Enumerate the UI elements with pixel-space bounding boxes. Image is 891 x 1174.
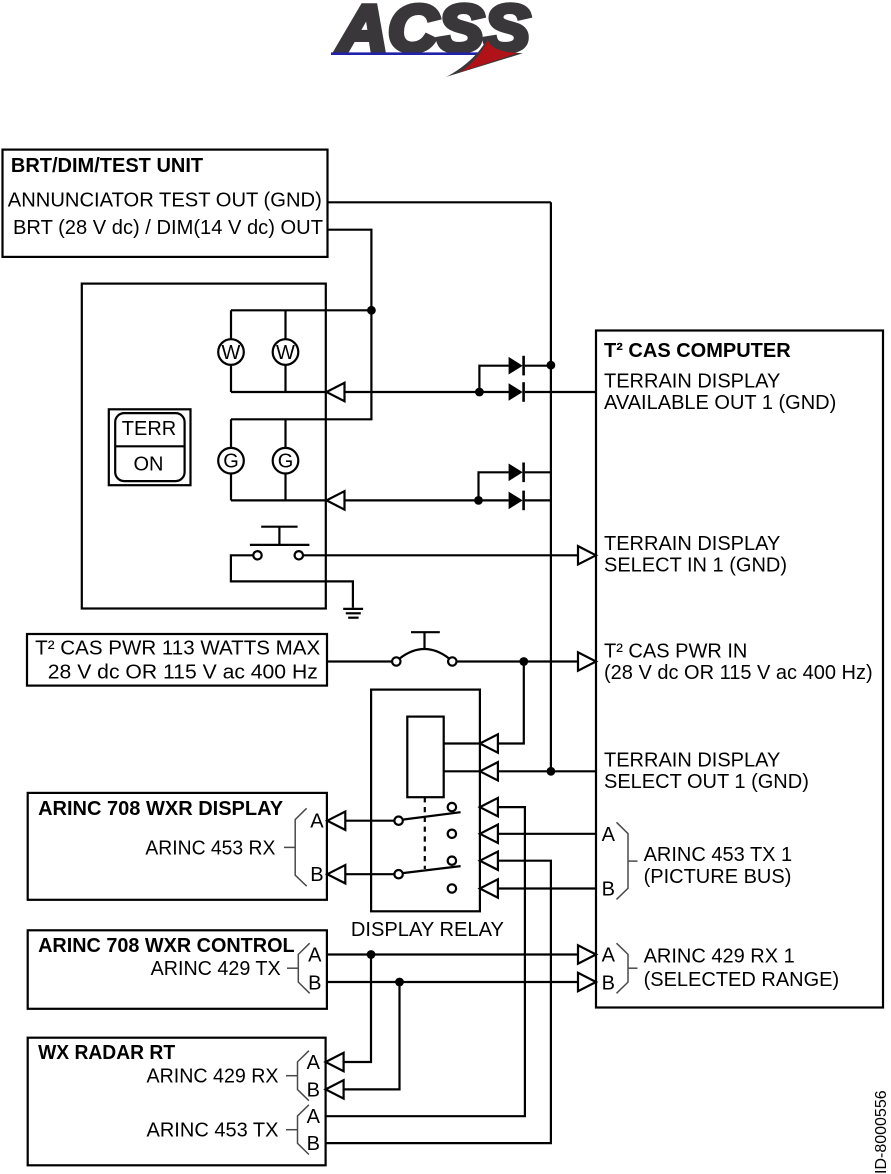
arrow radar 429 B: [326, 1080, 344, 1098]
TERR ON annunciator switch: [109, 409, 191, 485]
label A wxr display: [310, 811, 324, 833]
junction dot BRT feed: [367, 306, 376, 315]
wire W lamp stems: [231, 310, 286, 392]
svg-text:ARINC 453 TX 1: ARINC 453 TX 1: [644, 844, 793, 866]
ACSS logo blue underline: [331, 52, 486, 55]
brace ARINC 453 TX 1: [617, 822, 638, 899]
arrow select in: [578, 546, 596, 564]
svg-text:ARINC 429 RX 1: ARINC 429 RX 1: [644, 946, 795, 968]
lamp W1: [218, 339, 244, 365]
svg-text:A: A: [307, 1106, 321, 1128]
svg-text:SELECT IN 1 (GND): SELECT IN 1 (GND): [604, 555, 787, 577]
svg-text:DISPLAY RELAY: DISPLAY RELAY: [351, 919, 504, 941]
arrows at relay contacts: [480, 798, 498, 898]
svg-text:SELECT OUT 1 (GND): SELECT OUT 1 (GND): [604, 771, 809, 793]
svg-text:WX RADAR RT: WX RADAR RT: [38, 1042, 175, 1064]
ACSS logo arrow swoosh red fill: [460, 40, 519, 73]
label B selected range: [602, 973, 615, 995]
wire select out: [498, 770, 596, 772]
wire control A to CAS: [327, 953, 578, 955]
wire control B to CAS: [327, 981, 578, 983]
brace ARINC 453 TX radar: [298, 1105, 309, 1155]
ARINC 708 WXR CONTROL box: [28, 930, 327, 1009]
relay coil K1: [407, 717, 480, 798]
wire annunciator test out to diode bus: [328, 201, 551, 203]
junction dot diode pair 1: [475, 388, 484, 397]
wire pushbutton to select in: [303, 554, 578, 556]
svg-text:ARINC 708 WXR CONTROL: ARINC 708 WXR CONTROL: [38, 935, 295, 957]
ARINC 708 WXR DISPLAY box: [28, 793, 327, 900]
svg-text:A: A: [308, 945, 322, 967]
label terrain display available out: [604, 370, 836, 414]
wire BRT feed down to G bus: [231, 310, 371, 419]
svg-text:AVAILABLE OUT 1 (GND): AVAILABLE OUT 1 (GND): [604, 392, 836, 414]
BRT/DIM/TEST UNIT box: [3, 150, 328, 257]
brace ARINC 429 RX 1: [617, 943, 638, 993]
svg-text:TERRAIN DISPLAY: TERRAIN DISPLAY: [604, 533, 780, 555]
svg-text:(SELECTED RANGE): (SELECTED RANGE): [644, 969, 840, 991]
label A radar 453: [307, 1106, 321, 1128]
T2 CAS PWR box: [27, 634, 327, 686]
wire contact2 to picture bus A: [498, 833, 596, 835]
T2 CAS COMPUTER box: [596, 331, 883, 1008]
wire W lamp top bus: [231, 309, 371, 311]
svg-text:W: W: [222, 342, 241, 364]
diode D1: [509, 356, 551, 376]
svg-text:A: A: [307, 1052, 321, 1074]
wire PWR dot down to relay coil: [498, 662, 524, 744]
arrow CAS PWR in: [578, 652, 596, 670]
wire diode bus vertical: [550, 202, 552, 771]
label B wxr control: [308, 973, 321, 995]
wire control A down to radar: [344, 955, 371, 1063]
wire contact3 to ARINC453 TX B: [326, 861, 551, 1143]
wire control B down to radar: [344, 982, 400, 1089]
junction dot PWR feed: [519, 657, 528, 666]
arrow coil bottom: [480, 762, 498, 780]
lamp G1: [218, 448, 244, 474]
lamp W2: [273, 339, 299, 365]
ACSS logo arrow swoosh dark outline: [446, 38, 523, 77]
label A selected range: [602, 945, 616, 967]
junction dot diode pair 2: [474, 496, 483, 505]
svg-text:ON: ON: [134, 453, 164, 475]
svg-text:A: A: [602, 945, 616, 967]
relay blade 1: [394, 812, 460, 825]
svg-text:28 V dc OR 115 V ac 400 Hz: 28 V dc OR 115 V ac 400 Hz: [48, 662, 318, 684]
diode D3: [509, 463, 551, 483]
svg-text:ARINC 708 WXR DISPLAY: ARINC 708 WXR DISPLAY: [38, 798, 284, 820]
wire switch to CAS PWR IN: [457, 660, 579, 662]
wire display B to relay blade2: [345, 873, 394, 875]
svg-text:(28 V dc OR 115 V ac 400 Hz): (28 V dc OR 115 V ac 400 Hz): [604, 662, 873, 684]
diode D4: [509, 491, 551, 511]
power switch SW1: [392, 632, 456, 666]
label A wxr control: [308, 945, 322, 967]
svg-text:TERRAIN DISPLAY: TERRAIN DISPLAY: [604, 370, 780, 392]
label B radar 453: [307, 1133, 320, 1155]
svg-text:G: G: [223, 451, 239, 473]
annunciator unit box: [82, 284, 326, 609]
svg-text:B: B: [307, 1079, 320, 1101]
svg-text:BRT (28 V dc) / DIM(14 V dc) O: BRT (28 V dc) / DIM(14 V dc) OUT: [13, 217, 323, 239]
svg-text:B: B: [307, 1133, 320, 1155]
svg-text:B: B: [602, 879, 615, 901]
brace ARINC 429 TX: [298, 943, 309, 993]
arrow radar 429 A: [326, 1053, 344, 1071]
svg-text:B: B: [602, 973, 615, 995]
label A radar 429: [307, 1052, 321, 1074]
label A picture bus: [602, 824, 616, 846]
ID-8000556 part number: [873, 1090, 890, 1174]
pushbutton test switch: [250, 527, 310, 560]
display relay box: [351, 690, 504, 941]
label terrain display select in: [604, 533, 787, 577]
wire G bus to diode pair 2: [345, 499, 509, 501]
svg-text:ARINC 453 RX: ARINC 453 RX: [145, 838, 275, 860]
wire pushbutton to ground: [231, 555, 353, 608]
wire W lamp bottom bus: [231, 391, 326, 393]
svg-text:G: G: [278, 451, 294, 473]
diode D2: [509, 382, 596, 402]
arrow into unit at W bus: [327, 383, 345, 401]
svg-text:ARINC 453 TX: ARINC 453 TX: [147, 1120, 279, 1142]
svg-text:W: W: [276, 342, 295, 364]
svg-text:T² CAS COMPUTER: T² CAS COMPUTER: [604, 340, 791, 362]
lamp G2: [273, 448, 299, 474]
arrow coil top: [480, 734, 498, 752]
diode pair 1 riser: [479, 366, 508, 392]
relay actuator dashed link: [424, 797, 426, 869]
svg-text:TERR: TERR: [122, 418, 176, 440]
arrow CAS 429 A: [578, 945, 596, 963]
svg-text:ARINC 429 TX: ARINC 429 TX: [151, 958, 281, 980]
ground symbol: [343, 609, 363, 618]
svg-text:BRT/DIM/TEST UNIT: BRT/DIM/TEST UNIT: [11, 155, 203, 177]
wire PWR box to switch: [327, 660, 392, 662]
junction dot diode bus top: [547, 361, 556, 370]
wire G lamp stems: [231, 419, 286, 500]
relay contact circles: [448, 803, 456, 893]
arrow CAS 429 B: [578, 973, 596, 991]
wire W bus to diode pair 1: [345, 391, 509, 393]
svg-text:(PICTURE BUS): (PICTURE BUS): [644, 866, 792, 888]
brace ARINC 453 RX: [295, 808, 307, 886]
label B wxr display: [310, 864, 323, 886]
junction dot control A: [367, 950, 376, 959]
wire display A to relay blade1: [345, 820, 394, 822]
relay blade 2: [394, 866, 460, 878]
label ARINC 429 RX 1: [644, 946, 840, 992]
arrow wxr display B: [327, 865, 345, 883]
svg-text:TERRAIN DISPLAY: TERRAIN DISPLAY: [604, 750, 780, 772]
svg-text:A: A: [602, 824, 616, 846]
label terrain display select out: [604, 750, 809, 794]
wire G lamp bottom bus: [231, 499, 326, 501]
wire contact1 to ARINC453 TX A: [326, 807, 525, 1116]
svg-text:B: B: [310, 864, 323, 886]
svg-text:ANNUNCIATOR TEST OUT (GND): ANNUNCIATOR TEST OUT (GND): [8, 190, 322, 212]
svg-text:ARINC 429 RX: ARINC 429 RX: [147, 1066, 279, 1088]
arrow into unit at G bus: [327, 491, 345, 509]
label B picture bus: [602, 879, 615, 901]
label B radar 429: [307, 1079, 320, 1101]
diode pair 2 riser: [479, 472, 509, 500]
label T2 CAS PWR IN: [604, 641, 873, 685]
WX RADAR RT box: [28, 1038, 326, 1166]
brace ARINC 429 RX radar: [298, 1051, 309, 1101]
svg-text:T² CAS PWR 113 WATTS MAX: T² CAS PWR 113 WATTS MAX: [35, 638, 320, 660]
arrow wxr display A: [327, 812, 345, 830]
junction dot select out: [547, 767, 556, 776]
svg-text:T² CAS PWR IN: T² CAS PWR IN: [604, 641, 747, 663]
svg-text:B: B: [308, 973, 321, 995]
ACSS logo text: [336, 0, 530, 65]
label ARINC 453 TX 1: [644, 844, 793, 888]
svg-text:A: A: [310, 811, 324, 833]
wire BRT/DIM out to lamp bus: [328, 230, 372, 311]
wire contact4 to picture bus B: [498, 887, 596, 889]
svg-text:ID-8000556: ID-8000556: [873, 1090, 890, 1174]
junction dot control B: [395, 978, 404, 987]
